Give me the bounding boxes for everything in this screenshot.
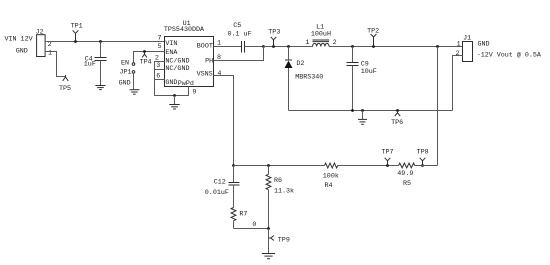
wire bottom rail	[289, 110, 453, 112]
wire U1 pins 2,3,6 tie-down	[155, 62, 189, 96]
capacitor C5	[241, 41, 243, 53]
svg-text:PH: PH	[205, 58, 213, 66]
svg-text:GND: GND	[478, 41, 490, 49]
wire feedback line mid	[338, 165, 399, 167]
node feedback left	[232, 164, 235, 167]
IC U1 TPS5430DDA	[165, 37, 214, 87]
svg-text:TP3: TP3	[268, 28, 280, 36]
svg-text:2: 2	[456, 50, 460, 58]
svg-text:TP2: TP2	[367, 28, 379, 36]
svg-text:VSNS: VSNS	[197, 71, 213, 79]
test point TP2	[372, 45, 375, 48]
svg-text:100k: 100k	[323, 172, 339, 180]
svg-text:VIN: VIN	[165, 40, 177, 48]
ground (U1)	[169, 104, 179, 106]
svg-text:3: 3	[156, 62, 160, 70]
svg-text:TP4: TP4	[140, 59, 152, 67]
wire J2 pin1 to TP5	[45, 52, 66, 77]
svg-text:J2: J2	[36, 28, 44, 36]
svg-text:R5: R5	[403, 180, 411, 188]
svg-text:10uF: 10uF	[361, 68, 377, 76]
resistor R6 11.3k	[267, 164, 270, 167]
capacitor C9	[351, 45, 354, 48]
wire L1 to J1 pin1	[329, 46, 462, 48]
node PH	[262, 45, 265, 48]
svg-text:TP7: TP7	[382, 148, 394, 156]
svg-text:TP8: TP8	[417, 148, 429, 156]
resistor R4 100k	[325, 163, 338, 168]
svg-text:1: 1	[48, 50, 52, 58]
svg-text:5: 5	[158, 43, 162, 51]
svg-text:PwPd: PwPd	[178, 80, 194, 88]
test point TP3	[272, 45, 275, 48]
svg-text:C12: C12	[214, 178, 226, 186]
jumper JP1	[132, 63, 135, 66]
svg-text:-12V Vout @ 0.5A: -12V Vout @ 0.5A	[477, 52, 542, 60]
svg-text:R6: R6	[274, 177, 282, 185]
svg-text:VIN 12V: VIN 12V	[5, 36, 33, 44]
node C9 bottom	[351, 109, 354, 112]
connector J2	[37, 35, 46, 57]
svg-text:1: 1	[457, 41, 461, 49]
wire BOOT to C5	[214, 46, 242, 48]
ground (R6/R7)	[262, 253, 275, 255]
svg-text:R4: R4	[325, 182, 333, 190]
wire PH return to pin 8	[214, 47, 264, 61]
test point TP7	[386, 164, 389, 167]
svg-text:9: 9	[192, 88, 196, 96]
svg-text:1uF: 1uF	[84, 61, 96, 69]
node U1 ground junction	[173, 94, 176, 97]
svg-text:JP1: JP1	[120, 68, 132, 76]
svg-text:C5: C5	[233, 22, 241, 30]
svg-text:D2: D2	[296, 60, 304, 68]
wire PH rail to L1	[264, 46, 313, 48]
test point TP1	[74, 40, 77, 43]
node output gnd junction	[436, 45, 439, 48]
test point TP8	[421, 164, 424, 167]
svg-text:2: 2	[48, 41, 52, 49]
test point TP4	[143, 50, 146, 53]
wire feedback line right	[415, 165, 438, 167]
test point TP9	[269, 237, 271, 239]
svg-text:GND: GND	[165, 79, 177, 87]
wire pin 6 stub	[155, 79, 165, 81]
wire feedback line left	[234, 165, 325, 167]
diode D2 MBRS340	[287, 45, 290, 48]
capacitor C12	[233, 166, 235, 183]
wire gnd node to feedback	[437, 47, 439, 166]
resistor R7 0	[231, 208, 236, 221]
svg-text:49.9: 49.9	[397, 170, 413, 178]
svg-text:0.1 uF: 0.1 uF	[228, 30, 252, 38]
wire J1 pin2 to bottom rail	[453, 56, 463, 111]
capacitor C4	[99, 40, 102, 43]
svg-text:TP1: TP1	[71, 22, 83, 30]
ground (C4)	[95, 85, 105, 87]
wire C5 to PH node	[245, 46, 264, 48]
svg-text:BOOT: BOOT	[197, 42, 213, 50]
svg-text:EN: EN	[121, 60, 129, 68]
svg-text:TPS5430DDA: TPS5430DDA	[164, 26, 205, 34]
wire to U1 ground	[174, 96, 176, 105]
svg-text:GND: GND	[119, 79, 131, 87]
svg-text:2: 2	[333, 39, 337, 47]
wire ENA to JP1	[134, 52, 165, 63]
svg-text:R7: R7	[239, 211, 247, 219]
svg-text:0.01uF: 0.01uF	[205, 189, 229, 197]
wire JP1 pin2 to ground	[133, 73, 135, 89]
inductor L1 100uH	[313, 43, 330, 46]
svg-text:ENA: ENA	[165, 49, 178, 57]
node R7/R6	[267, 227, 270, 230]
resistor R5 49.9	[399, 163, 415, 168]
svg-text:7: 7	[158, 35, 162, 43]
connector J1	[463, 42, 473, 62]
wire pin 3 stub	[155, 69, 165, 71]
svg-text:1: 1	[305, 39, 309, 47]
wire R7 to R6 node	[234, 228, 269, 230]
test point TP6	[396, 109, 399, 112]
test point TP5	[63, 77, 69, 81]
ground (JP1)	[130, 89, 140, 91]
svg-text:MBRS340: MBRS340	[295, 73, 323, 81]
ground (output rail)	[361, 109, 364, 112]
svg-text:TP5: TP5	[59, 85, 71, 93]
svg-text:TP6: TP6	[391, 119, 403, 127]
svg-text:100uH: 100uH	[311, 31, 331, 39]
svg-text:TP9: TP9	[278, 237, 290, 245]
wire R6 node to ground	[268, 229, 270, 254]
svg-text:NC/GND: NC/GND	[165, 65, 189, 73]
svg-text:GND: GND	[16, 48, 28, 56]
svg-text:11.3k: 11.3k	[274, 187, 294, 195]
svg-text:J1: J1	[463, 35, 471, 43]
svg-text:4: 4	[217, 70, 221, 78]
wire VIN rail J2 pin2 to U1 pin7	[45, 41, 165, 43]
wire VSNS to feedback node	[214, 76, 234, 166]
